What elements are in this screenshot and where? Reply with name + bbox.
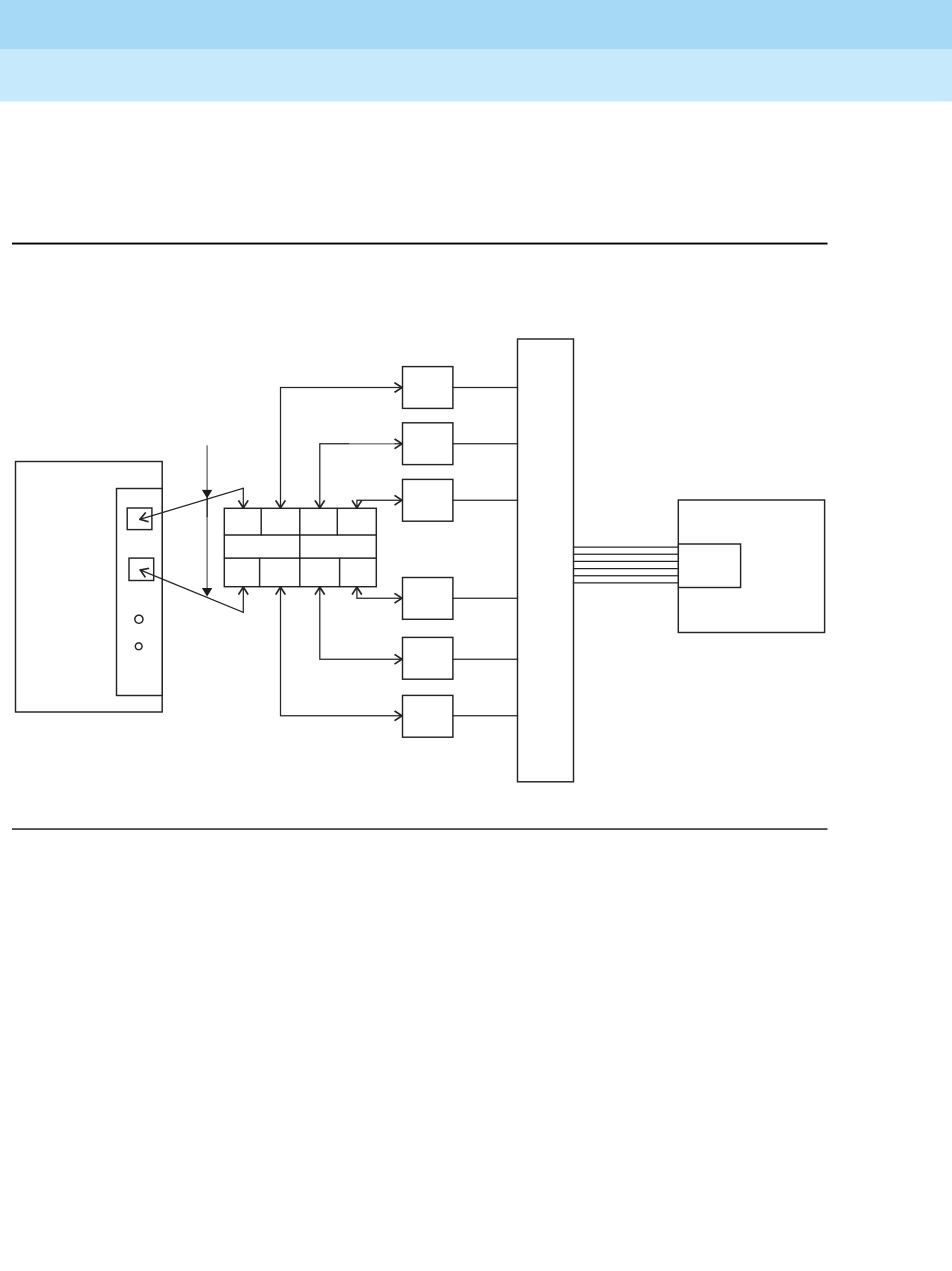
media table row1 dividers xyxy=(261,508,337,535)
bottom rule xyxy=(12,828,828,829)
stub box2 to bus xyxy=(453,443,518,445)
positioner arrowhead lower xyxy=(202,588,212,597)
positioner vertical line xyxy=(206,446,208,589)
arrow down into table col2 xyxy=(276,501,285,508)
right unit connector block xyxy=(678,544,740,588)
bus tall rectangle xyxy=(518,339,574,782)
L-connector table to box3 xyxy=(357,500,402,507)
box5 xyxy=(403,637,453,679)
arrow up into table col2 xyxy=(276,587,285,594)
connector diagonal to square S1 xyxy=(140,488,243,519)
media table row line 2 xyxy=(224,557,376,559)
stub box6 to bus xyxy=(453,715,518,717)
stub box4 to bus xyxy=(453,597,518,599)
connector diagonal to square S2 xyxy=(140,570,243,612)
connector vertical into table top col1 xyxy=(242,488,244,507)
L-connector table to box2 xyxy=(320,444,402,508)
left unit front panel xyxy=(117,489,163,696)
indicator circle c2 xyxy=(135,643,142,650)
box6 xyxy=(403,695,453,737)
header band dark xyxy=(0,0,952,49)
header band light xyxy=(0,49,952,102)
button square S1 xyxy=(127,508,152,530)
right unit box xyxy=(678,500,824,633)
left unit outer box xyxy=(16,462,163,713)
connector vertical into table bottom col1 xyxy=(242,588,244,613)
arrow up into table col4 xyxy=(353,587,362,594)
arrow down into table col3 xyxy=(315,501,324,508)
media table row2 divider xyxy=(299,535,301,558)
stub box5 to bus xyxy=(453,658,518,660)
stub box1 to bus xyxy=(453,387,518,389)
L-connector table to box4 xyxy=(357,588,402,599)
ribbon cable lines xyxy=(574,547,679,583)
box1 xyxy=(403,367,453,409)
top rule xyxy=(12,243,828,245)
positioner arrowhead upper xyxy=(202,490,212,499)
L-connector table to box1 xyxy=(281,388,402,508)
media table row3 dividers xyxy=(260,558,340,587)
positioner line black segment xyxy=(206,498,208,517)
arrow up into table col3 xyxy=(315,587,324,594)
box4 xyxy=(403,578,453,620)
L-connector table to box5 xyxy=(320,588,402,660)
indicator circle c1 xyxy=(135,615,143,623)
media table outer xyxy=(224,508,376,586)
arrow down into table col4 xyxy=(353,501,362,508)
button square S2 xyxy=(129,558,154,580)
box3 xyxy=(403,479,453,521)
stub box3 to bus xyxy=(453,499,518,501)
media table row line 1 xyxy=(224,534,376,536)
box2 xyxy=(403,423,453,465)
L-connector table to box6 xyxy=(281,588,402,716)
